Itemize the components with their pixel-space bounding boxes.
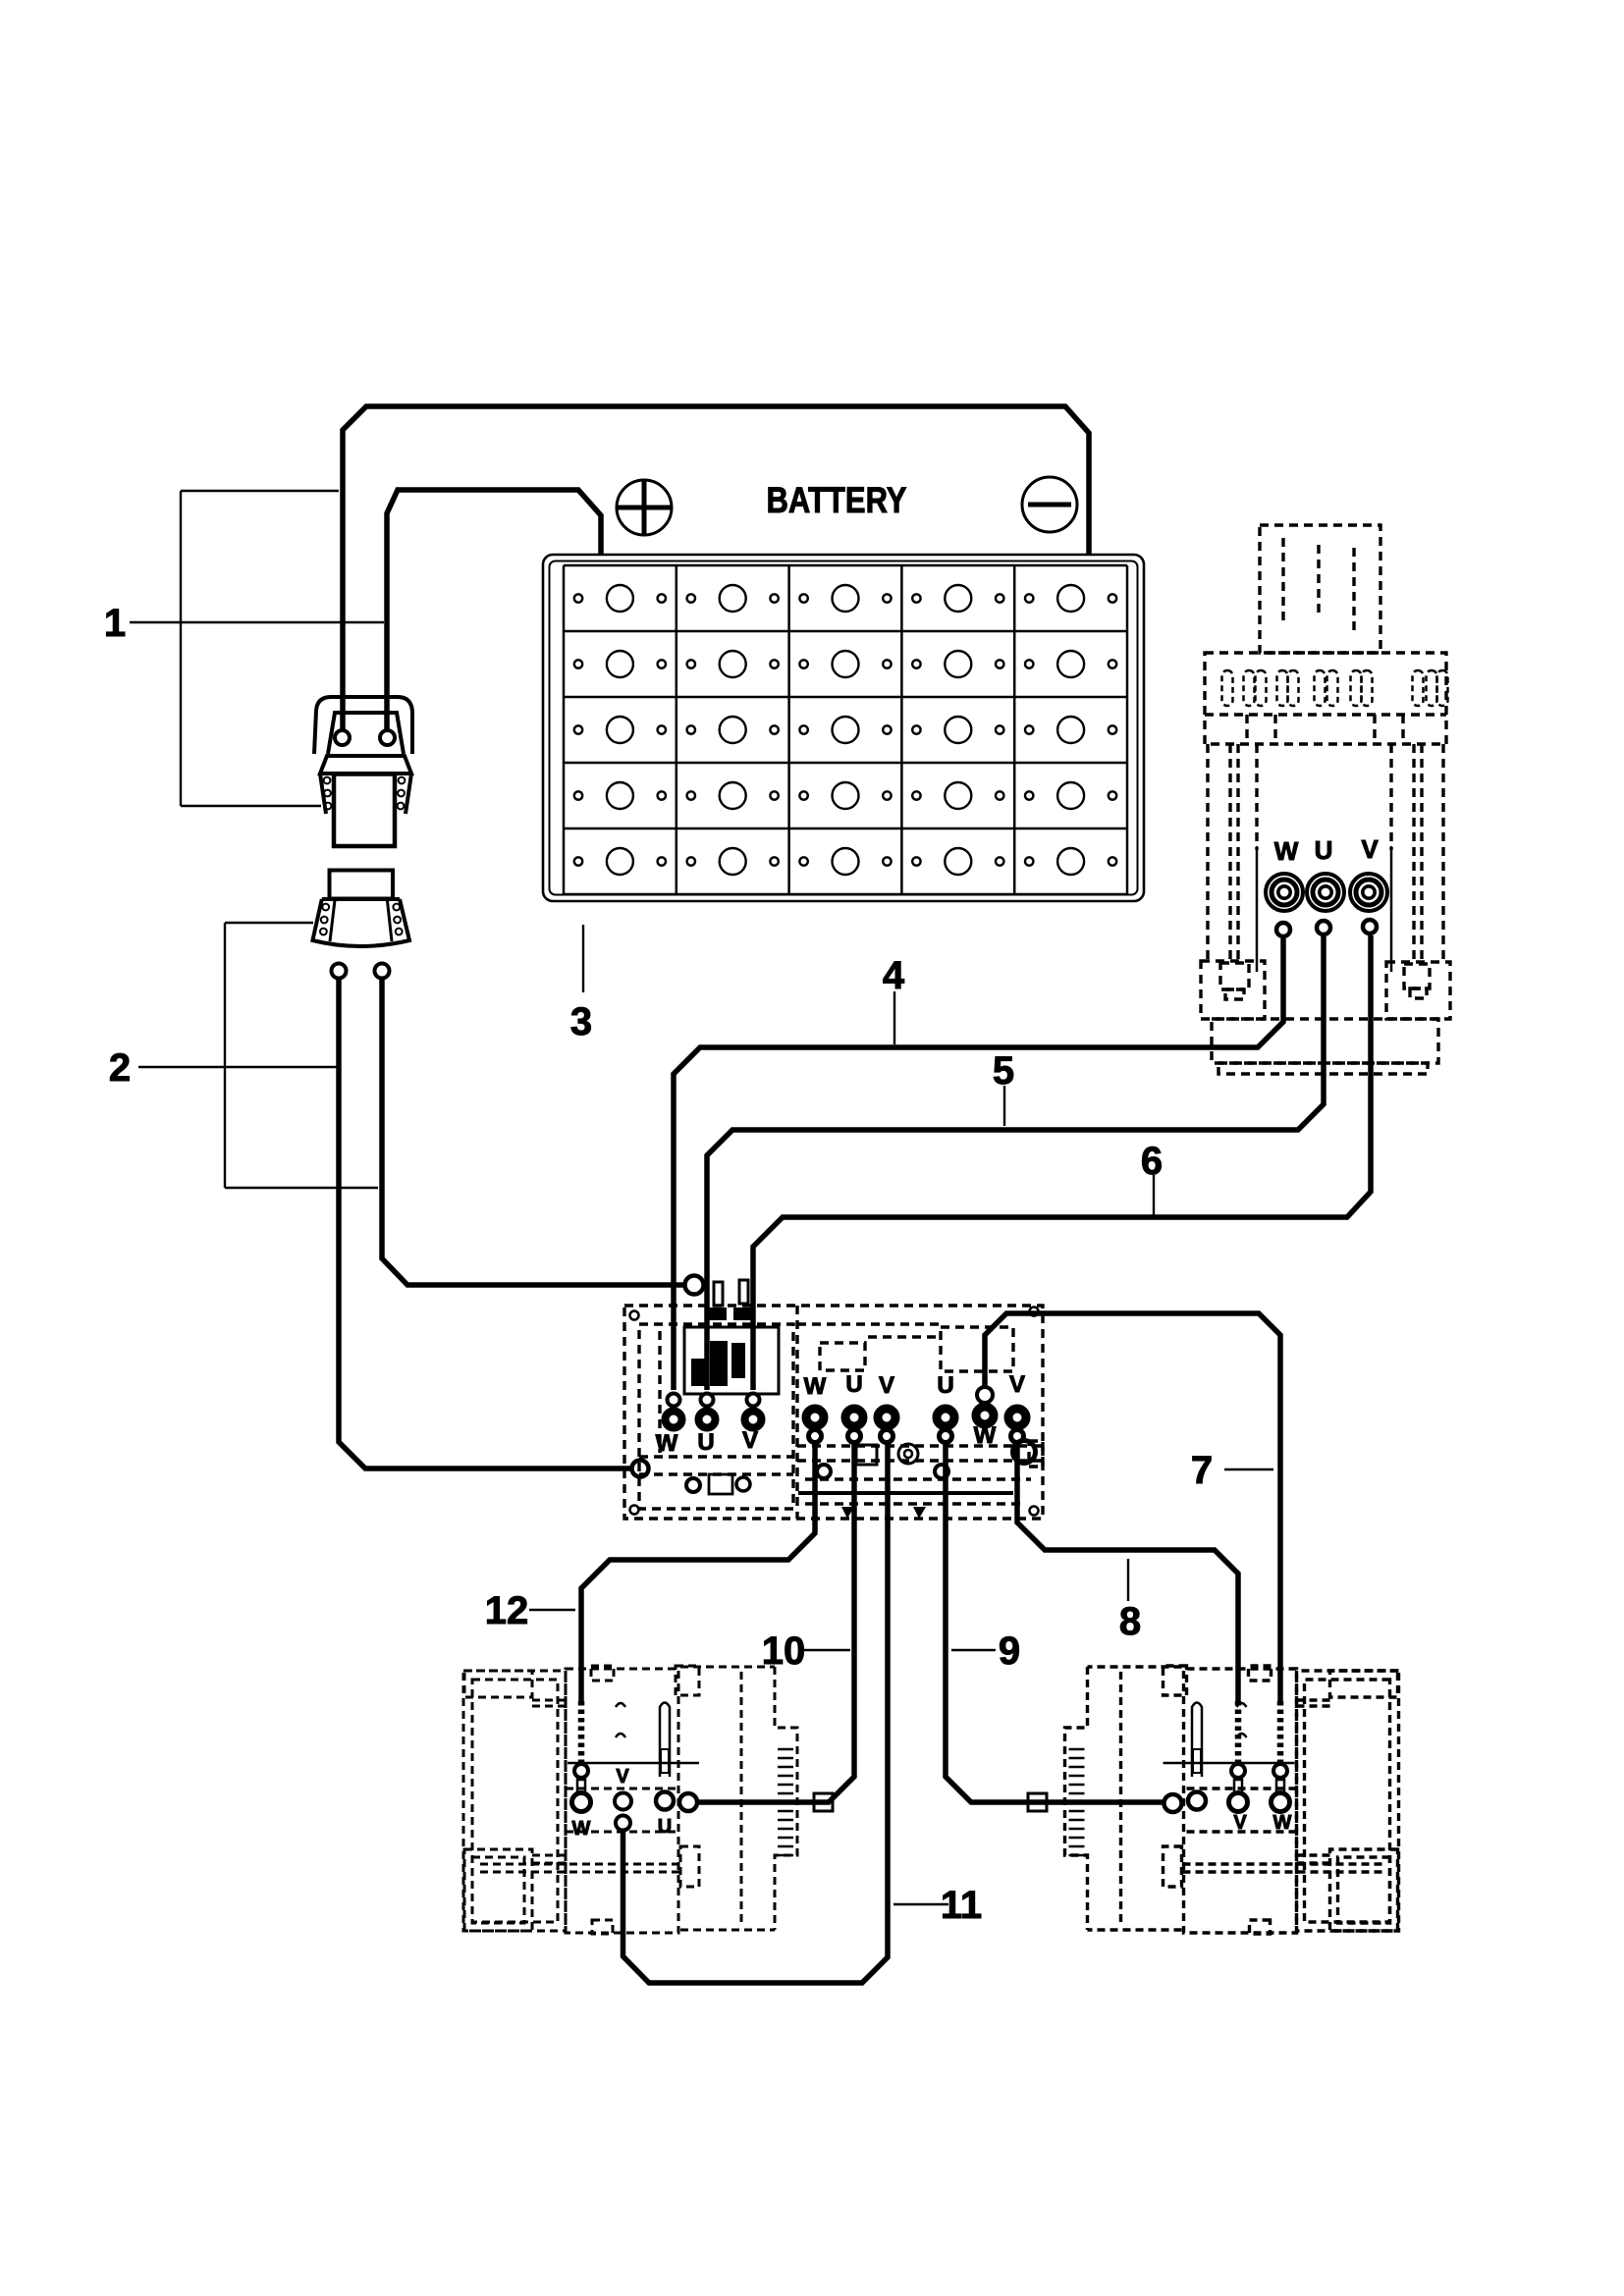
controller left inner box (639, 1324, 793, 1509)
connector 2 left pin (332, 964, 347, 979)
wire 1 : battery minus to connector 1 left pin (343, 406, 1089, 730)
battery 3 : cell box (543, 555, 1144, 901)
connector 2 collar (322, 897, 400, 901)
connector 2 skirt (312, 899, 409, 946)
svg-text:W: W (1273, 1812, 1292, 1834)
connector 1 skirt (320, 774, 411, 814)
svg-text:12: 12 (485, 1589, 529, 1632)
label 1 bracket thin lines (130, 491, 384, 806)
svg-text:V: V (1361, 834, 1379, 864)
generator feet (1201, 961, 1265, 1019)
generator pin U (1317, 921, 1330, 934)
svg-text:V: V (1009, 1371, 1025, 1398)
connector 2 inner edges (330, 900, 392, 941)
svg-text:W: W (572, 1818, 591, 1840)
wire 2 : battery plus to connector 1 right pin (387, 490, 601, 730)
wire 8 : controller V right to right motor V (1017, 1443, 1238, 1701)
right motor R bolt (1192, 1703, 1202, 1778)
label 12 leader (529, 1609, 575, 1611)
wire 4 : generator W to controller W (674, 938, 1283, 1390)
svg-text:U: U (937, 1372, 953, 1399)
right motor wire9 ring (1164, 1794, 1182, 1812)
connector 2 right pin (375, 964, 390, 979)
label 2 bracket thin lines (138, 923, 378, 1188)
connector 2 (lower half) (312, 871, 409, 979)
svg-text:2: 2 (109, 1046, 131, 1090)
wire 6 : generator V to controller V (753, 935, 1371, 1390)
connector 1 left pin (335, 730, 350, 745)
svg-text:U: U (1315, 835, 1333, 865)
wire 7 : controller W right to right motor W (985, 1313, 1280, 1701)
svg-text:U: U (845, 1371, 862, 1398)
controller corner screws (630, 1308, 1039, 1516)
label 4 tick (893, 991, 895, 1044)
right motor housing (mirror) (1065, 1666, 1399, 1934)
connector 2 rivets (320, 904, 403, 935)
left motor wire10 ring (679, 1793, 697, 1811)
svg-text:V: V (879, 1372, 894, 1399)
label 10 leader (803, 1649, 850, 1651)
label 11 leader (893, 1903, 948, 1905)
right motor W terminal (1273, 1764, 1287, 1778)
left motor housing (463, 1666, 797, 1934)
generator pin V (1363, 920, 1377, 934)
connector 1 right pin (380, 730, 395, 745)
battery plus terminal (617, 480, 672, 535)
connector 2 window (330, 871, 394, 899)
wire 5 : generator U to controller U (707, 936, 1324, 1390)
wire 11 : left motor V to controller V (623, 1443, 889, 1983)
controller left box lower hardware (686, 1478, 700, 1492)
generator side columns (1206, 744, 1209, 965)
svg-text:U: U (697, 1429, 714, 1456)
wire 9 : controller U right to right motor U (946, 1443, 1164, 1802)
svg-text:V: V (1233, 1812, 1247, 1834)
connector 1 collar (320, 756, 411, 774)
left motor W terminal (574, 1764, 588, 1778)
svg-text:11: 11 (941, 1884, 982, 1927)
left motor c marks (616, 1703, 625, 1737)
battery minus terminal (1022, 477, 1077, 532)
label 9 leader (951, 1649, 996, 1651)
right motor V terminal (1231, 1764, 1245, 1778)
connector 1 rivets (324, 777, 406, 810)
generator (dashed housing) (1201, 525, 1450, 1074)
controller solid bus (798, 1491, 1013, 1495)
controller contactor block (684, 1280, 779, 1394)
label 7 leader (1224, 1468, 1273, 1470)
connector 1 window (334, 774, 395, 847)
connector 1 bail outer (314, 697, 412, 754)
left motor terminal area line (568, 1762, 699, 1765)
svg-text:1: 1 (104, 602, 126, 645)
controller small hardware (817, 1441, 1036, 1479)
label 8 tick (1127, 1559, 1129, 1601)
svg-text:4: 4 (883, 954, 905, 997)
svg-text:3: 3 (570, 1000, 592, 1043)
battery grid (564, 565, 1127, 894)
svg-text:V: V (616, 1766, 629, 1788)
label 5 tick (1003, 1086, 1005, 1126)
label 3 tick (582, 925, 584, 992)
battery cell circles (574, 585, 1116, 875)
controller right box top tabs (820, 1343, 865, 1370)
svg-text:8: 8 (1119, 1600, 1141, 1643)
connector 1 bail inner (328, 713, 404, 754)
ring terminal controller top left (685, 1276, 704, 1295)
generator terminal V (1350, 874, 1387, 911)
generator terminal U (1307, 874, 1344, 911)
wire 10 : controller U to left motor U (697, 1443, 854, 1802)
generator terminal band (1205, 653, 1446, 744)
connector 1 (upper half of battery connector pair) (314, 697, 412, 846)
left motor V terminal (615, 1793, 631, 1810)
svg-text:W: W (1274, 836, 1299, 866)
controller outer dashed box (624, 1306, 1043, 1519)
wire 12 : controller W to left motor W (581, 1443, 815, 1701)
generator opening edges (1256, 846, 1259, 972)
left motor U bolt (660, 1703, 670, 1778)
generator top block (1260, 525, 1380, 653)
svg-text:W: W (656, 1430, 678, 1457)
wire from connector 2 right pin to controller top (382, 979, 685, 1285)
left motor gear hatch (778, 1749, 793, 1855)
right motor crimp block (1028, 1793, 1047, 1811)
controller right box bottom lines (797, 1444, 1043, 1447)
svg-text:6: 6 (1141, 1140, 1163, 1183)
generator terminal W (1266, 874, 1303, 911)
wire from connector 2 left pin to controller W left (339, 979, 632, 1468)
svg-text:9: 9 (999, 1629, 1020, 1673)
svg-text:V: V (742, 1427, 758, 1454)
controller right terminals (806, 1387, 1026, 1443)
svg-text:7: 7 (1191, 1449, 1213, 1492)
svg-text:5: 5 (993, 1049, 1014, 1093)
generator pin W (1276, 923, 1290, 936)
generator slots (1222, 670, 1448, 706)
label 6 tick (1153, 1175, 1155, 1215)
svg-text:BATTERY: BATTERY (767, 480, 907, 520)
controller left terminals W U V (666, 1394, 762, 1428)
left motor crimp block (814, 1793, 833, 1811)
generator bottom plate (1212, 1019, 1438, 1063)
svg-text:10: 10 (762, 1629, 806, 1673)
svg-text:W: W (974, 1422, 997, 1449)
svg-text:U: U (658, 1816, 672, 1838)
ring terminal at controller left (632, 1461, 649, 1477)
svg-text:W: W (804, 1373, 827, 1400)
